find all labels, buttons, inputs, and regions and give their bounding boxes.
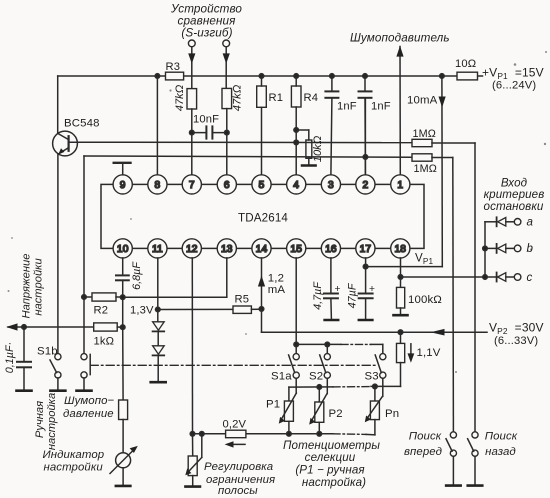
svg-text:(6...33V): (6...33V)	[494, 335, 538, 347]
wire pin7 vertical	[191, 109, 193, 175]
label comparison device title	[170, 3, 242, 40]
svg-text:P2: P2	[329, 408, 343, 420]
pin 13	[217, 239, 236, 258]
node R2 right junction	[120, 295, 125, 300]
wire V_P1 supply rail	[58, 75, 483, 77]
svg-text:Поиск: Поиск	[409, 431, 442, 443]
svg-text:1nF: 1nF	[371, 101, 391, 113]
ground 0.1µF	[17, 389, 32, 392]
wire noise-suppressor arrow / pin1 vertical	[396, 46, 403, 175]
svg-text:(P1 − ручная: (P1 − ручная	[295, 464, 364, 477]
svg-text:P1: P1	[266, 399, 280, 411]
node P2 bottom junction	[317, 432, 322, 437]
node S2 feed junction	[325, 342, 330, 347]
svg-text:(S-изгиб): (S-изгиб)	[181, 26, 232, 39]
svg-text:47kΩ: 47kΩ	[232, 84, 244, 111]
wire pin13 to R2 row	[123, 258, 227, 297]
svg-text:mA: mA	[268, 284, 286, 296]
pin 17	[356, 239, 375, 258]
svg-text:давление: давление	[63, 408, 114, 420]
pin 16	[321, 239, 340, 258]
ground S1b	[50, 389, 65, 392]
wire pin2 vertical lower	[364, 99, 366, 175]
svg-text:c: c	[527, 271, 533, 284]
pin 6	[217, 175, 236, 194]
svg-text:BC548: BC548	[64, 118, 100, 130]
svg-text:настройка: настройка	[46, 393, 58, 450]
svg-text:1MΩ: 1MΩ	[414, 163, 438, 175]
pin 8	[148, 175, 167, 194]
pin 18	[391, 239, 410, 258]
svg-text:1MΩ: 1MΩ	[413, 128, 437, 140]
wire pin18 vertical	[400, 258, 402, 287]
resistor R5	[158, 306, 262, 313]
wire tuning voltage row	[6, 323, 94, 330]
svg-text:47µF: 47µF	[347, 282, 359, 308]
node rail wiper junction	[200, 432, 205, 437]
diode b	[485, 244, 521, 253]
node diode c junction	[483, 275, 488, 280]
switch S3	[375, 354, 386, 379]
ground 4.7µF	[325, 319, 339, 322]
ground meter	[116, 485, 131, 488]
resistor indicator	[119, 400, 128, 453]
wire pin5 vertical	[261, 107, 263, 175]
svg-text:1nF: 1nF	[337, 101, 357, 113]
wire pin11 vertical	[157, 258, 159, 321]
diode c	[497, 273, 521, 282]
node R1 top junction	[259, 74, 264, 79]
node 10nF right junction	[225, 130, 230, 135]
wire S2 to P2 wiper	[326, 378, 328, 393]
ground search back	[468, 484, 483, 487]
wire second row to pin2 and 1MΩ	[84, 156, 412, 297]
wire S1a to P1 wiper	[295, 378, 297, 393]
label tuning indicator	[43, 449, 105, 473]
pin 10	[113, 239, 132, 258]
svg-text:47kΩ: 47kΩ	[174, 84, 186, 111]
pin 1	[391, 175, 410, 194]
wire S3 to Pn wiper	[382, 378, 384, 396]
wire pot top rail	[289, 386, 401, 401]
svg-text:Индикатор: Индикатор	[43, 449, 105, 461]
label 1.2mA	[268, 272, 286, 295]
resistor 10Ω (supply)	[457, 72, 478, 80]
node base/R4/pin4 junction	[294, 140, 299, 145]
svg-text:9: 9	[120, 180, 126, 191]
resistor 1MΩ upper	[412, 139, 475, 146]
capacitor 1nF second	[359, 76, 372, 175]
svg-text:14: 14	[256, 244, 268, 255]
svg-text:4: 4	[293, 180, 299, 191]
wire base line to R4 node and 1MΩ	[69, 141, 412, 143]
capacitor 10nF	[192, 126, 227, 138]
ground muting switch	[77, 389, 92, 392]
svg-text:настройки: настройки	[44, 461, 104, 473]
ground 100kΩ	[394, 314, 408, 317]
ground band-limit pot	[185, 485, 200, 488]
switch S1b	[50, 354, 61, 390]
pin 15	[287, 239, 306, 258]
capacitor 47µF on pin17	[359, 258, 373, 319]
wire collector to rail	[57, 76, 59, 134]
resistor R1	[257, 76, 267, 107]
IC U1 TDA2614 body	[101, 184, 424, 248]
wire pin8 vertical	[156, 76, 158, 175]
node 1.3V junction	[156, 307, 161, 312]
svg-text:100kΩ: 100kΩ	[408, 294, 442, 306]
resistor 1.1V dropper	[397, 332, 405, 386]
svg-text:S3: S3	[365, 370, 379, 382]
label +VP1 15V	[482, 65, 544, 91]
label VP2 30V	[489, 321, 544, 348]
svg-text:1,3V: 1,3V	[130, 304, 154, 316]
pin 7	[182, 175, 201, 194]
node pin18 junction	[398, 275, 403, 280]
wire search-forward vertical	[452, 158, 455, 432]
resistor 0.2V in rail	[226, 430, 246, 438]
node R5 right junction	[259, 307, 264, 312]
svg-text:+: +	[335, 284, 341, 295]
switch search back	[468, 432, 479, 484]
svg-text:18: 18	[394, 244, 406, 255]
wire indicator branch	[122, 327, 124, 400]
svg-text:полосы: полосы	[218, 485, 258, 497]
wire pin18 to stop diodes	[401, 276, 497, 278]
node rail pin12 junction	[190, 432, 195, 437]
resistor 100kΩ	[397, 287, 405, 313]
svg-text:ограничения: ограничения	[206, 474, 275, 486]
svg-text:10kΩ: 10kΩ	[312, 135, 324, 162]
svg-text:R4: R4	[304, 92, 319, 104]
svg-text:10mA: 10mA	[407, 94, 438, 106]
ground 10kΩ	[302, 164, 316, 167]
node V_P2 1.1V junction	[398, 330, 403, 335]
wire S2 stub	[326, 344, 328, 353]
capacitor 1nF first	[325, 76, 338, 175]
svg-text:Поиск: Поиск	[485, 431, 518, 443]
svg-text:S1a: S1a	[271, 370, 292, 382]
wire search-back vertical	[474, 143, 476, 432]
svg-text:остановки: остановки	[484, 200, 544, 213]
wire pin14 vertical with 1.2mA arrow	[258, 258, 265, 332]
label muting	[63, 395, 115, 420]
svg-text:R3: R3	[166, 61, 181, 73]
pin 5	[252, 175, 271, 194]
switch muting	[81, 297, 90, 389]
label band limit adjust	[204, 461, 275, 497]
pin 2	[356, 175, 375, 194]
svg-text:R5: R5	[235, 293, 250, 305]
svg-text:10Ω: 10Ω	[455, 58, 476, 70]
svg-text:1,1V: 1,1V	[417, 347, 441, 359]
svg-text:Напряжение: Напряжение	[21, 254, 33, 319]
diode D1 on pin11	[153, 322, 165, 346]
svg-text:7: 7	[189, 180, 195, 191]
node 1nF-a top junction	[330, 74, 335, 79]
svg-text:a: a	[527, 216, 534, 229]
svg-text:Ручная: Ручная	[34, 401, 46, 438]
svg-text:8: 8	[154, 180, 160, 191]
resistor 10kΩ	[296, 130, 312, 164]
label selection pots	[283, 439, 380, 489]
switch S2	[320, 354, 331, 379]
svg-text:15: 15	[290, 244, 302, 255]
ground diode chain	[151, 381, 166, 384]
label tuning voltage	[21, 254, 45, 319]
coupling dash line	[90, 364, 376, 366]
node diode b junction	[483, 246, 488, 251]
svg-text:+VP1 =15V: +VP1 =15V	[482, 65, 544, 80]
ground 47µF	[359, 319, 373, 322]
wire V_P2 line	[262, 329, 488, 336]
svg-text:11: 11	[152, 244, 163, 255]
node pin8-rail junction	[155, 74, 160, 79]
wire switch feed row	[296, 344, 383, 353]
node P1 bottom junction	[287, 432, 292, 437]
svg-text:6: 6	[224, 180, 230, 191]
wire 10mA branch	[366, 76, 446, 267]
wire pin6 vertical	[226, 109, 228, 175]
svg-text:настройка): настройка)	[302, 476, 366, 489]
resistor 1kΩ	[94, 323, 123, 331]
node R4/10k junction	[294, 128, 299, 133]
svg-text:+: +	[369, 284, 375, 295]
svg-text:настройки: настройки	[33, 258, 45, 315]
svg-text:1kΩ: 1kΩ	[94, 336, 115, 348]
wire pin4 vertical	[295, 107, 297, 175]
resistor R2	[84, 293, 123, 301]
transistor Q1 BC548	[53, 131, 78, 156]
svg-text:Шумоподавитель: Шумоподавитель	[350, 31, 450, 44]
node 0.1µF junction	[22, 325, 27, 330]
resistor 47kΩ first	[187, 89, 197, 109]
switch S1a	[289, 354, 300, 379]
capacitor 0.1µF	[17, 327, 31, 389]
potentiometer P1	[279, 393, 297, 434]
svg-text:вперед: вперед	[404, 446, 442, 458]
label search forward	[404, 431, 442, 458]
ground above pin 9	[114, 163, 131, 175]
capacitor 4.7µF on pin16	[324, 258, 338, 319]
svg-text:TDA2614: TDA2614	[238, 211, 288, 224]
node 1nF-b top junction	[363, 74, 368, 79]
arrow 0.2V	[225, 441, 245, 447]
pin 9	[113, 175, 132, 194]
svg-text:(6...24V): (6...24V)	[492, 80, 536, 92]
svg-text:Шумопо−: Шумопо−	[64, 395, 115, 407]
resistor R3	[166, 72, 184, 80]
arrow 1.1V	[408, 344, 415, 363]
terminal comparison device b	[223, 40, 230, 89]
svg-text:17: 17	[360, 244, 372, 255]
node P2 top junction	[317, 385, 322, 390]
diode a	[485, 217, 521, 226]
svg-text:3: 3	[328, 180, 334, 191]
resistor 1MΩ lower	[412, 154, 453, 161]
svg-text:10: 10	[117, 244, 129, 255]
node R4 top junction	[294, 74, 299, 79]
svg-text:b: b	[527, 242, 534, 255]
node 10nF left junction	[190, 130, 195, 135]
wire stop-diode common	[484, 222, 486, 277]
svg-text:1,2: 1,2	[268, 272, 284, 284]
wire pin12 vertical	[191, 258, 193, 434]
resistor R4	[291, 76, 301, 107]
label stop criteria input	[484, 177, 545, 213]
node Pn top junction	[373, 384, 378, 389]
potentiometer P2	[309, 387, 327, 434]
pin 14	[252, 239, 271, 258]
pin 4	[287, 175, 306, 194]
svg-text:12: 12	[186, 244, 198, 255]
svg-text:0,2V: 0,2V	[223, 418, 247, 430]
potentiometer band-limit	[185, 434, 202, 485]
meter tuning indicator	[110, 446, 138, 484]
svg-text:S1b: S1b	[37, 346, 58, 358]
svg-text:10nF: 10nF	[193, 113, 219, 125]
pin 3	[321, 175, 340, 194]
svg-text:1: 1	[397, 180, 403, 191]
node R2 left junction	[82, 295, 87, 300]
svg-text:4,7µF: 4,7µF	[312, 281, 324, 310]
svg-text:13: 13	[221, 244, 233, 255]
pin 11	[148, 239, 167, 258]
resistor 47kΩ second	[222, 88, 232, 108]
svg-text:R2: R2	[94, 305, 109, 317]
terminal comparison device a	[188, 40, 195, 89]
wire pin15 vertical	[295, 258, 297, 354]
svg-text:R1: R1	[269, 92, 284, 104]
pin 12	[182, 239, 201, 258]
svg-text:2: 2	[362, 180, 368, 191]
node 10mA branch junction	[440, 74, 445, 79]
svg-text:0,1µF·: 0,1µF·	[4, 342, 16, 373]
svg-text:S2: S2	[309, 370, 323, 382]
wire bottom rail	[193, 434, 375, 435]
switch search forward	[446, 432, 457, 484]
svg-text:назад: назад	[485, 446, 516, 458]
svg-text:Регулировка: Регулировка	[204, 461, 273, 473]
label search back	[485, 431, 518, 458]
diode D2 on pin11	[153, 346, 165, 381]
node 1kΩ right junction	[120, 325, 125, 330]
wire emitter down to S1b	[57, 154, 59, 354]
svg-text:Pn: Pn	[385, 408, 399, 420]
svg-text:5: 5	[259, 180, 265, 191]
label manual tuning	[34, 393, 58, 450]
svg-text:селекции: селекции	[305, 451, 356, 464]
svg-text:6,8µF: 6,8µF	[131, 261, 143, 290]
svg-text:16: 16	[325, 244, 337, 255]
ground search forward	[446, 484, 461, 487]
node pin17 junction	[363, 264, 368, 269]
node pin2 row junction	[363, 155, 368, 160]
potentiometer Pn	[365, 386, 383, 434]
capacitor 6.8µF on pin10	[116, 258, 129, 327]
node S1a feed junction	[294, 342, 299, 347]
